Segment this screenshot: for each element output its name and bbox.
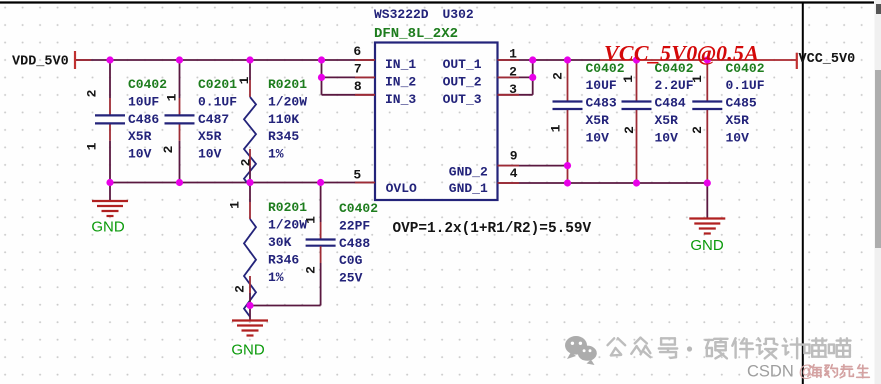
svg-text:22PF: 22PF	[339, 218, 370, 233]
svg-text:2: 2	[690, 126, 705, 134]
svg-text:U302: U302	[443, 7, 474, 22]
svg-text:10V: 10V	[128, 147, 152, 162]
svg-text:1: 1	[509, 47, 517, 62]
svg-text:X5R: X5R	[655, 113, 679, 128]
svg-text:1%: 1%	[268, 270, 284, 285]
svg-text:OVP=1.2x(1+R1/R2)=5.59V: OVP=1.2x(1+R1/R2)=5.59V	[393, 221, 592, 237]
svg-text:WS3222D: WS3222D	[374, 7, 429, 22]
svg-text:2: 2	[551, 72, 566, 80]
svg-text:1/20W: 1/20W	[268, 218, 307, 233]
svg-text:1: 1	[228, 201, 243, 209]
svg-text:2: 2	[304, 266, 319, 274]
svg-text:4: 4	[510, 166, 518, 181]
svg-text:C0402: C0402	[128, 77, 167, 92]
svg-text:3: 3	[509, 82, 517, 97]
svg-text:IN_1: IN_1	[385, 57, 416, 72]
svg-text:1: 1	[549, 124, 564, 132]
svg-text:8: 8	[354, 79, 362, 94]
svg-text:1%: 1%	[268, 147, 284, 162]
svg-text:GND: GND	[690, 237, 724, 254]
svg-text:C485: C485	[726, 96, 757, 111]
svg-text:10V: 10V	[655, 130, 679, 145]
svg-text:0.1UF: 0.1UF	[726, 78, 765, 93]
svg-text:X5R: X5R	[128, 129, 152, 144]
svg-text:10UF: 10UF	[128, 94, 159, 109]
svg-text:X5R: X5R	[726, 113, 750, 128]
svg-text:2: 2	[233, 285, 248, 293]
svg-text:VDD_5V0: VDD_5V0	[12, 55, 69, 70]
svg-text:2: 2	[509, 65, 517, 80]
svg-text:R346: R346	[268, 253, 299, 268]
svg-text:IN_3: IN_3	[385, 92, 416, 107]
svg-text:GND_1: GND_1	[449, 181, 488, 196]
svg-text:C488: C488	[339, 236, 370, 251]
svg-text:6: 6	[353, 44, 361, 59]
svg-text:1: 1	[165, 93, 180, 101]
svg-text:C0G: C0G	[339, 253, 363, 268]
svg-text:CSDN @: CSDN @	[747, 363, 815, 381]
svg-text:IN_2: IN_2	[385, 74, 416, 89]
svg-text:10V: 10V	[198, 147, 222, 162]
svg-text:VCC_5V0: VCC_5V0	[799, 52, 856, 67]
svg-text:9: 9	[510, 148, 518, 163]
svg-text:1: 1	[621, 75, 636, 83]
svg-text:5: 5	[353, 168, 361, 183]
svg-text:OUT_1: OUT_1	[443, 57, 482, 72]
svg-text:R345: R345	[268, 129, 299, 144]
svg-text:C486: C486	[128, 112, 159, 127]
svg-text:GND_2: GND_2	[449, 164, 488, 179]
svg-text:OUT_3: OUT_3	[443, 92, 482, 107]
svg-text:2.2UF: 2.2UF	[655, 78, 694, 93]
svg-text:DFN_8L_2X2: DFN_8L_2X2	[374, 26, 458, 42]
svg-text:10V: 10V	[726, 130, 750, 145]
svg-text:GND: GND	[231, 342, 265, 359]
svg-text:X5R: X5R	[586, 113, 610, 128]
svg-text:2: 2	[239, 158, 254, 166]
svg-text:25V: 25V	[339, 271, 363, 286]
svg-text:OVLO: OVLO	[386, 181, 417, 196]
svg-text:10UF: 10UF	[586, 78, 617, 93]
svg-text:C0201: C0201	[198, 77, 237, 92]
svg-text:30K: 30K	[268, 235, 292, 250]
svg-text:10V: 10V	[586, 130, 610, 145]
svg-text:C487: C487	[198, 112, 229, 127]
svg-text:7: 7	[354, 62, 362, 77]
svg-text:1: 1	[237, 76, 252, 84]
svg-text:0.1UF: 0.1UF	[198, 94, 237, 109]
svg-text:C0402: C0402	[339, 201, 378, 216]
svg-text:C483: C483	[586, 96, 617, 111]
svg-text:2: 2	[85, 89, 100, 97]
svg-text:2: 2	[622, 126, 637, 134]
svg-text:1: 1	[85, 142, 100, 150]
svg-text:VCC_5V0@0.5A: VCC_5V0@0.5A	[604, 41, 759, 66]
svg-text:X5R: X5R	[198, 129, 222, 144]
svg-text:OUT_2: OUT_2	[443, 74, 482, 89]
svg-text:2: 2	[161, 145, 176, 153]
svg-text:GND: GND	[91, 219, 125, 236]
svg-text:R0201: R0201	[268, 200, 307, 215]
svg-text:110K: 110K	[268, 112, 299, 127]
svg-text:C484: C484	[655, 96, 686, 111]
svg-text:1/20W: 1/20W	[268, 94, 307, 109]
svg-text:R0201: R0201	[268, 77, 307, 92]
